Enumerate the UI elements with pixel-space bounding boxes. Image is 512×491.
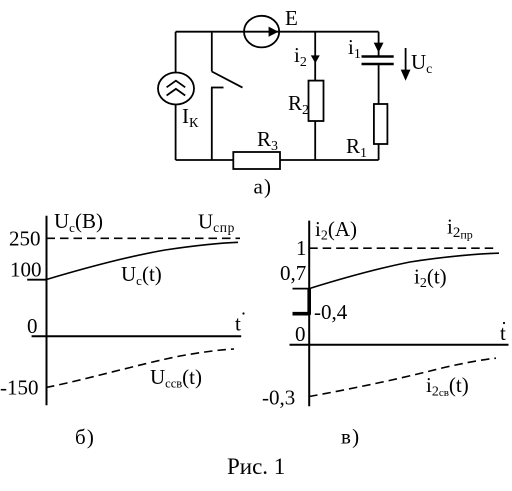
svg-text:Uc(В): Uc(В) — [54, 209, 103, 235]
resistor R1 — [374, 104, 388, 144]
svg-text:в): в) — [341, 425, 360, 449]
svg-text:0,7: 0,7 — [280, 261, 306, 285]
svg-text:а): а) — [254, 175, 273, 199]
wire bottom — [176, 159, 379, 161]
dashed line 250 — [47, 237, 241, 239]
wire R1 to bottom — [378, 144, 380, 160]
svg-text:i2(t): i2(t) — [414, 265, 447, 292]
axis Y left graph — [46, 216, 48, 406]
resistor R3 — [233, 152, 280, 169]
svg-text:100: 100 — [10, 258, 42, 282]
jump bar on axis — [307, 289, 311, 315]
axis X right graph — [290, 344, 509, 346]
wire R2 branch — [314, 32, 316, 160]
bar -0,4 — [293, 312, 310, 316]
curve Uc(t) — [47, 242, 239, 279]
switch — [211, 32, 243, 160]
capacitor C — [362, 57, 394, 65]
arrow Uc — [401, 48, 411, 81]
wire top — [176, 31, 379, 33]
tick 0.7 — [293, 288, 310, 290]
wire capacitor branch — [378, 32, 380, 56]
axis X left graph — [32, 335, 242, 337]
wire capacitor to R1 — [378, 64, 380, 104]
svg-text:0: 0 — [27, 314, 38, 338]
svg-text:1: 1 — [296, 236, 307, 260]
axis Y right graph — [308, 221, 310, 407]
arrow i1 — [374, 43, 384, 53]
current source IK — [158, 73, 194, 105]
svg-text:Рис. 1: Рис. 1 — [227, 454, 285, 479]
svg-text:250: 250 — [9, 227, 41, 251]
svg-text:-0,4: -0,4 — [314, 300, 348, 324]
wire left vertical — [175, 32, 177, 160]
svg-text:-0,3: -0,3 — [262, 386, 295, 410]
dashed curve i2sv(t) — [309, 358, 496, 396]
svg-text:t: t — [235, 312, 241, 336]
svg-text:E: E — [285, 6, 298, 30]
svg-text:Uc(t): Uc(t) — [121, 262, 162, 288]
dashed line 1 — [309, 247, 494, 249]
svg-text:б): б) — [75, 425, 95, 449]
svg-text:t: t — [500, 321, 506, 345]
arrow i2 — [311, 55, 320, 63]
svg-text:0: 0 — [295, 322, 306, 346]
dashed curve Ucsv(t) — [46, 349, 234, 388]
resistor R2 — [309, 81, 324, 121]
voltage source E — [244, 16, 279, 48]
svg-text:-150: -150 — [0, 376, 39, 400]
curve i2(t) — [309, 253, 499, 288]
tick 100 — [27, 279, 46, 281]
